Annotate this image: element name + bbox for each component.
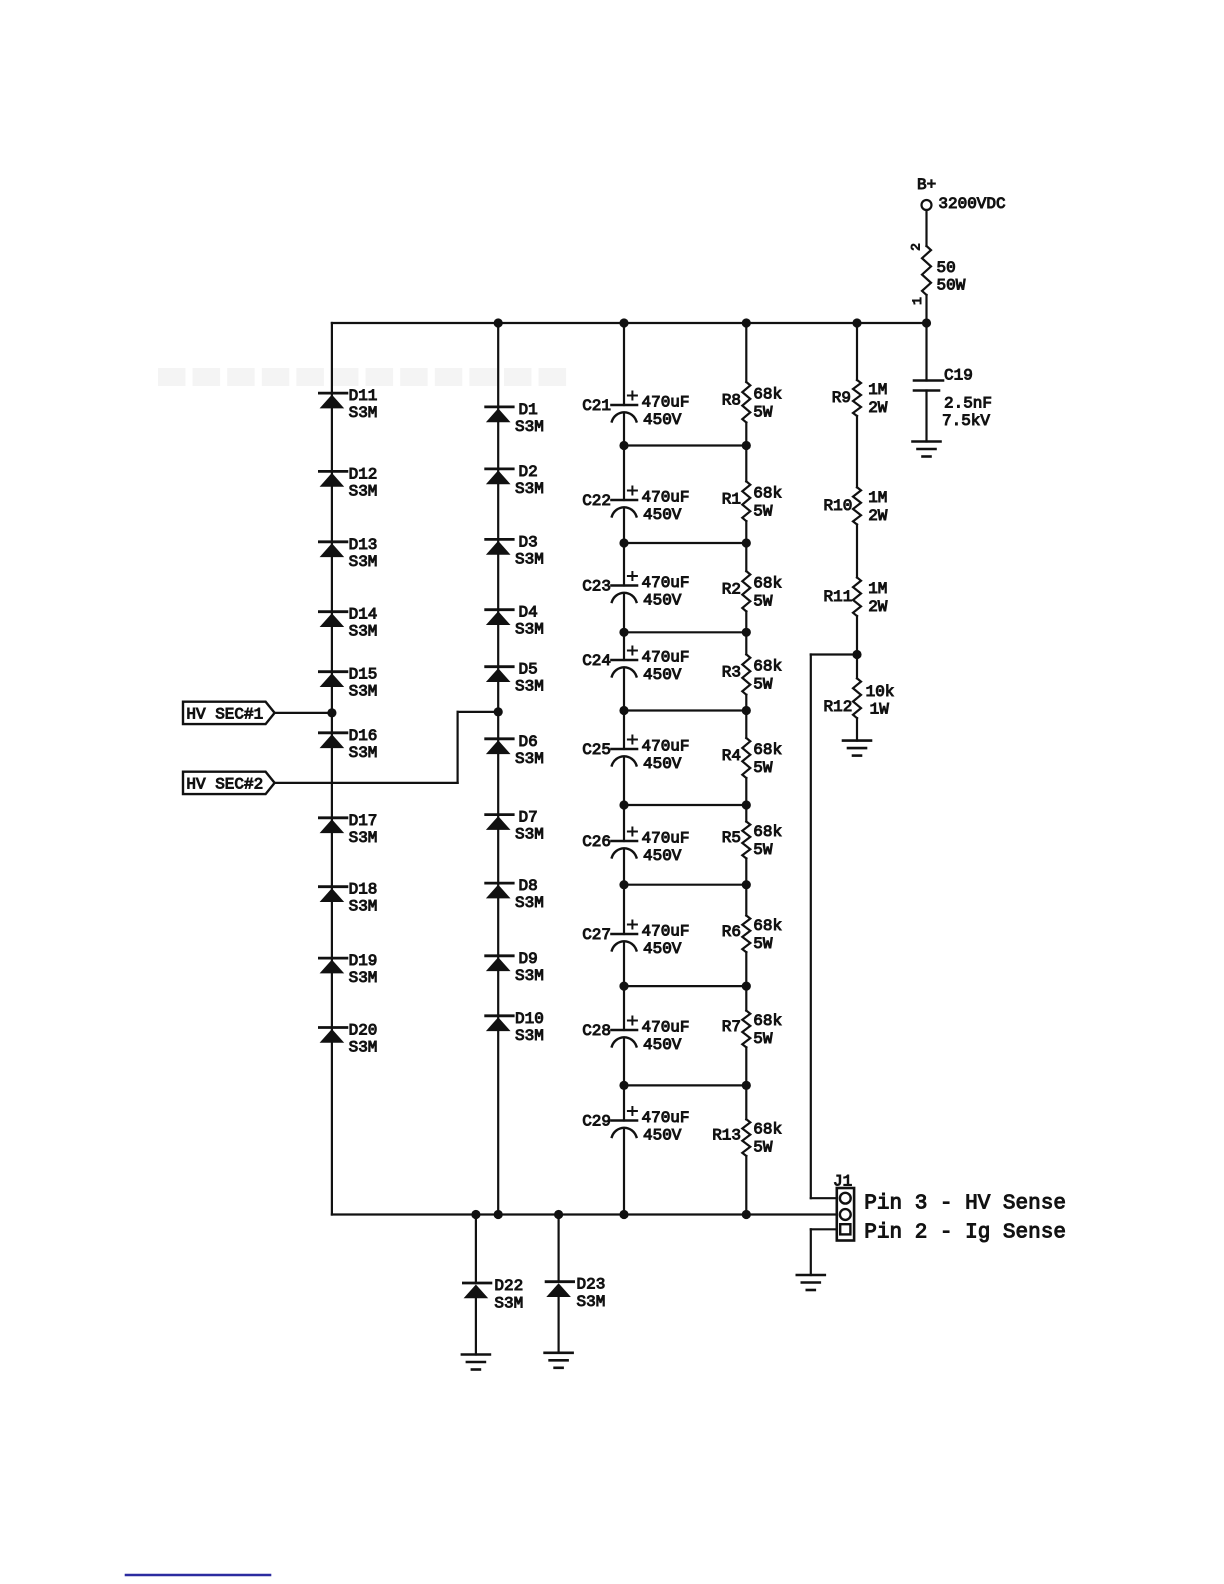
svg-text:470uF: 470uF	[642, 923, 690, 941]
svg-text:5W: 5W	[753, 403, 773, 421]
svg-text:470uF: 470uF	[642, 394, 690, 412]
svg-text:68k: 68k	[753, 741, 782, 759]
svg-text:S3M: S3M	[577, 1293, 606, 1311]
svg-text:1: 1	[910, 297, 925, 305]
svg-text:R13: R13	[712, 1127, 741, 1145]
svg-text:470uF: 470uF	[642, 1019, 690, 1037]
svg-text:S3M: S3M	[349, 969, 378, 987]
svg-text:S3M: S3M	[515, 678, 544, 696]
svg-text:D3: D3	[519, 533, 538, 551]
svg-text:HV SEC#1: HV SEC#1	[186, 706, 263, 724]
svg-text:R3: R3	[722, 664, 741, 682]
svg-text:S3M: S3M	[349, 829, 378, 847]
svg-text:2.5nF: 2.5nF	[944, 395, 992, 413]
svg-text:D11: D11	[349, 387, 378, 405]
svg-text:S3M: S3M	[515, 621, 544, 639]
svg-text:S3M: S3M	[349, 744, 378, 762]
svg-text:470uF: 470uF	[642, 1109, 690, 1127]
svg-text:2: 2	[909, 243, 924, 251]
svg-text:450V: 450V	[643, 1036, 682, 1054]
svg-text:D9: D9	[519, 950, 538, 968]
svg-text:C27: C27	[582, 926, 611, 944]
svg-text:1M: 1M	[868, 489, 887, 507]
svg-text:470uF: 470uF	[642, 649, 690, 667]
svg-text:68k: 68k	[753, 658, 782, 676]
svg-text:68k: 68k	[753, 917, 782, 935]
svg-text:D1: D1	[519, 401, 538, 419]
svg-text:5W: 5W	[753, 759, 773, 777]
svg-text:C19: C19	[944, 367, 973, 385]
svg-text:D14: D14	[349, 606, 378, 624]
svg-text:S3M: S3M	[515, 894, 544, 912]
svg-text:D20: D20	[349, 1022, 378, 1040]
svg-text:C29: C29	[582, 1113, 611, 1131]
svg-text:D7: D7	[519, 809, 538, 827]
svg-text:D15: D15	[349, 666, 378, 684]
svg-text:2W: 2W	[868, 507, 888, 525]
svg-text:68k: 68k	[753, 1121, 782, 1139]
svg-text:450V: 450V	[643, 592, 682, 610]
svg-text:Pin 2 - Ig Sense: Pin 2 - Ig Sense	[864, 1221, 1066, 1244]
svg-text:450V: 450V	[643, 666, 682, 684]
svg-text:5W: 5W	[753, 502, 773, 520]
svg-text:S3M: S3M	[515, 967, 544, 985]
svg-text:2W: 2W	[868, 598, 888, 616]
svg-text:S3M: S3M	[494, 1295, 523, 1313]
svg-text:1M: 1M	[868, 381, 887, 399]
svg-text:S3M: S3M	[349, 404, 378, 422]
svg-text:7.5kV: 7.5kV	[942, 412, 990, 430]
svg-text:10k: 10k	[866, 683, 895, 701]
svg-text:450V: 450V	[643, 847, 682, 865]
svg-text:R12: R12	[823, 698, 852, 716]
svg-text:5W: 5W	[753, 592, 773, 610]
svg-text:C21: C21	[582, 397, 611, 415]
svg-text:R8: R8	[722, 391, 741, 409]
svg-text:450V: 450V	[643, 411, 682, 429]
svg-text:68k: 68k	[753, 385, 782, 403]
svg-text:D6: D6	[519, 733, 538, 751]
svg-text:C23: C23	[582, 578, 611, 596]
svg-text:3200VDC: 3200VDC	[938, 195, 1005, 213]
svg-text:S3M: S3M	[349, 683, 378, 701]
svg-text:R2: R2	[722, 580, 741, 598]
svg-text:5W: 5W	[753, 676, 773, 694]
svg-text:450V: 450V	[643, 506, 682, 524]
svg-text:5W: 5W	[753, 841, 773, 859]
svg-text:S3M: S3M	[515, 750, 544, 768]
svg-text:D19: D19	[349, 952, 378, 970]
svg-text:Pin 3 - HV Sense: Pin 3 - HV Sense	[864, 1193, 1066, 1216]
svg-text:D22: D22	[494, 1277, 523, 1295]
svg-text:50: 50	[937, 259, 956, 277]
svg-text:S3M: S3M	[515, 826, 544, 844]
svg-text:C26: C26	[582, 833, 611, 851]
svg-text:D12: D12	[349, 465, 378, 483]
svg-text:D16: D16	[349, 727, 378, 745]
svg-text:D2: D2	[519, 463, 538, 481]
svg-text:2W: 2W	[868, 399, 888, 417]
svg-text:50W: 50W	[937, 277, 966, 295]
svg-text:D18: D18	[349, 881, 378, 899]
svg-text:S3M: S3M	[349, 623, 378, 641]
svg-text:S3M: S3M	[515, 550, 544, 568]
svg-text:C28: C28	[582, 1022, 611, 1040]
svg-text:R4: R4	[722, 747, 741, 765]
svg-text:R5: R5	[722, 829, 741, 847]
svg-text:1W: 1W	[870, 701, 890, 719]
svg-text:R10: R10	[823, 497, 852, 515]
svg-text:S3M: S3M	[349, 553, 378, 571]
svg-text:68k: 68k	[753, 1012, 782, 1030]
svg-text:D8: D8	[519, 877, 538, 895]
svg-text:B+: B+	[917, 176, 936, 194]
svg-text:68k: 68k	[753, 823, 782, 841]
svg-text:5W: 5W	[753, 1139, 773, 1157]
svg-text:R9: R9	[832, 389, 851, 407]
svg-text:R6: R6	[722, 923, 741, 941]
svg-text:470uF: 470uF	[642, 738, 690, 756]
svg-text:D4: D4	[519, 604, 538, 622]
svg-text:J1: J1	[833, 1172, 852, 1190]
svg-text:C24: C24	[582, 652, 611, 670]
svg-text:D23: D23	[577, 1276, 606, 1294]
svg-text:R11: R11	[823, 588, 852, 606]
svg-text:S3M: S3M	[515, 1027, 544, 1045]
svg-text:450V: 450V	[643, 940, 682, 958]
svg-text:450V: 450V	[643, 755, 682, 773]
svg-text:R1: R1	[722, 490, 741, 508]
svg-text:S3M: S3M	[349, 482, 378, 500]
svg-text:470uF: 470uF	[642, 574, 690, 592]
svg-text:450V: 450V	[643, 1127, 682, 1145]
svg-text:S3M: S3M	[349, 898, 378, 916]
svg-text:S3M: S3M	[515, 480, 544, 498]
svg-text:D17: D17	[349, 812, 378, 830]
svg-text:D10: D10	[515, 1010, 544, 1028]
svg-text:D13: D13	[349, 536, 378, 554]
svg-text:HV SEC#2: HV SEC#2	[186, 776, 263, 794]
svg-text:5W: 5W	[753, 1030, 773, 1048]
svg-text:470uF: 470uF	[642, 830, 690, 848]
svg-text:68k: 68k	[753, 574, 782, 592]
svg-text:S3M: S3M	[349, 1039, 378, 1057]
svg-text:S3M: S3M	[515, 418, 544, 436]
svg-text:C22: C22	[582, 492, 611, 510]
svg-text:1M: 1M	[868, 580, 887, 598]
svg-text:5W: 5W	[753, 935, 773, 953]
svg-text:68k: 68k	[753, 484, 782, 502]
svg-text:470uF: 470uF	[642, 489, 690, 507]
svg-text:D5: D5	[519, 661, 538, 679]
svg-text:R7: R7	[722, 1018, 741, 1036]
svg-text:C25: C25	[582, 741, 611, 759]
